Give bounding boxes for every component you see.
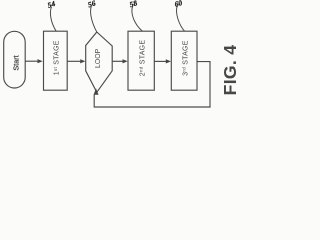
leader line 56	[91, 6, 97, 32]
leader line 60	[177, 6, 185, 31]
wire 1st STAGE to LOOP	[67, 60, 80, 62]
svg-text:Start: Start	[11, 55, 20, 70]
wire 2nd STAGE to 3rd STAGE	[154, 60, 166, 62]
arrowhead into LOOP left	[80, 59, 85, 63]
leader line 58	[132, 6, 143, 31]
arrowhead feedback into LOOP bottom	[94, 88, 99, 94]
terminal Start	[4, 31, 26, 88]
arrowhead into 1st STAGE	[38, 59, 43, 63]
box 1st STAGE	[44, 31, 68, 90]
wire Start to 1st STAGE	[25, 60, 37, 62]
svg-text:LOOP: LOOP	[95, 48, 102, 68]
hexagon LOOP	[86, 32, 113, 92]
svg-text:FIG. 4: FIG. 4	[220, 45, 240, 96]
wire LOOP to 2nd STAGE	[112, 60, 123, 62]
box 3rd STAGE	[171, 31, 197, 90]
box 2nd STAGE	[128, 31, 154, 90]
feedback wire 3rd STAGE to LOOP	[94, 62, 210, 107]
arrowhead into 2nd STAGE	[123, 59, 128, 63]
leader line 54	[50, 7, 56, 31]
arrowhead into 3rd STAGE	[166, 59, 171, 63]
